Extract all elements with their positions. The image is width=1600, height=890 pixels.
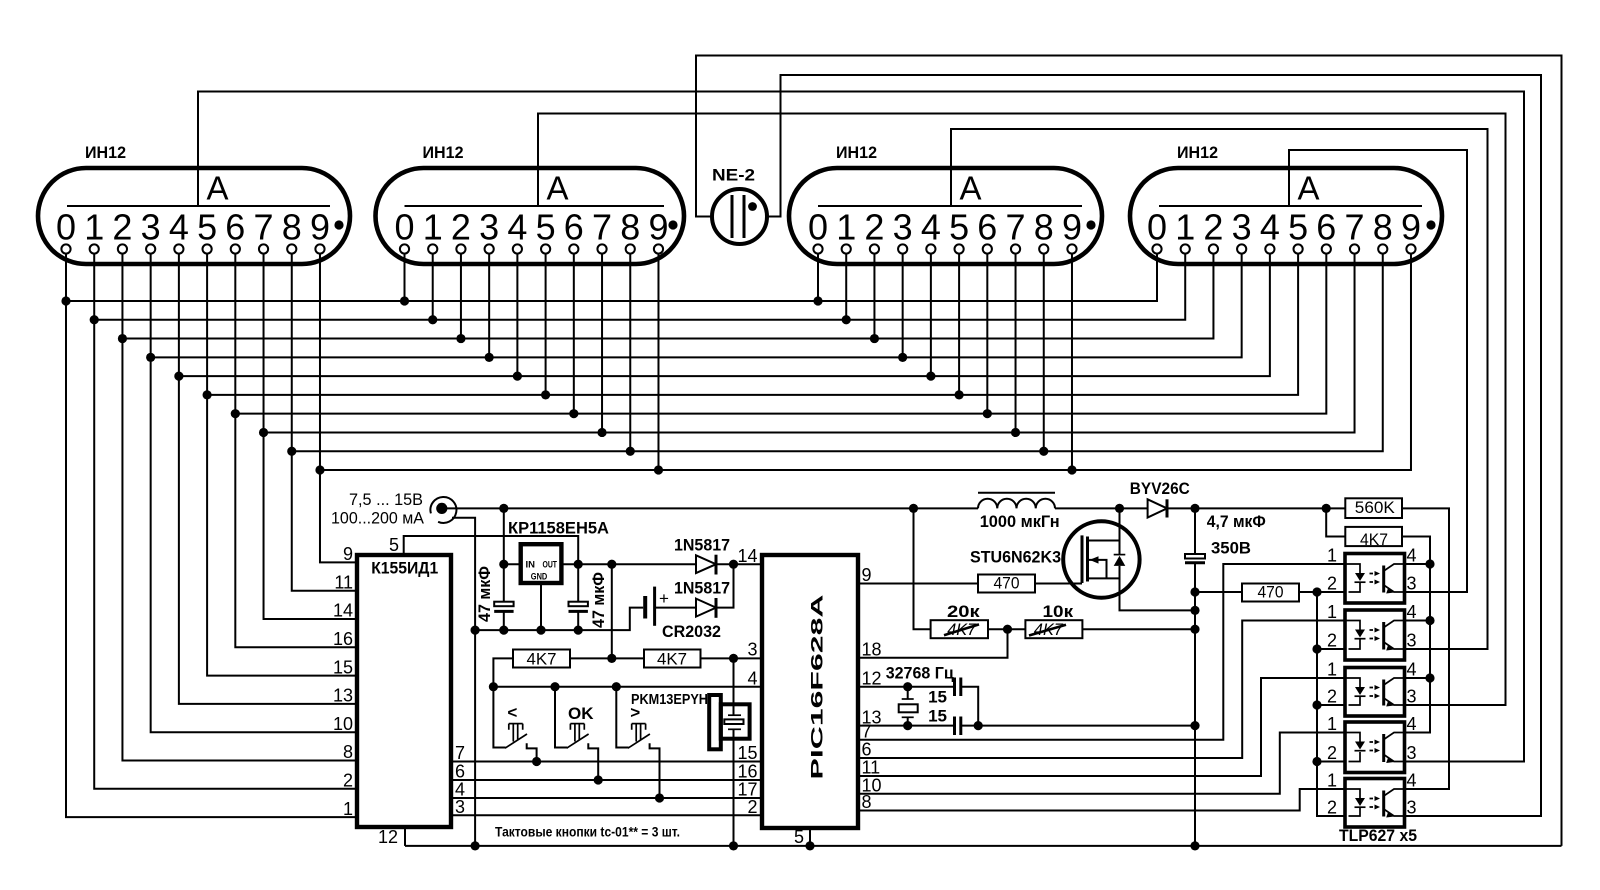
junction dots on +5V line (499, 560, 738, 569)
svg-text:0: 0 (56, 207, 76, 248)
wire: V3 cathode 7 drop to bus 7 (1015, 254, 1017, 433)
wire: cathode bus digit 5 (all tubes) (207, 254, 1298, 395)
wire: cathode bus digit 2 (all tubes) (122, 254, 1213, 339)
wire: anode of V2 to optocoupler U3 pin 3 (538, 114, 1506, 706)
wire: anode of V4 to optocoupler U1 pin 3 (1289, 150, 1467, 592)
svg-text:6: 6 (1316, 207, 1336, 248)
svg-text:4: 4 (1407, 660, 1417, 680)
wire: R2 right to R3 left (570, 657, 644, 659)
svg-text:BYV26C: BYV26C (1130, 479, 1190, 498)
capacitor C2 47мкФ (569, 564, 609, 630)
power input connector X1 (331, 490, 456, 528)
svg-text:6: 6 (862, 740, 872, 760)
capacitor C4 15pF (928, 678, 961, 707)
svg-text:ИН12: ИН12 (1177, 143, 1218, 162)
svg-text:Тактовые кнопки tc-01** = 3 шт: Тактовые кнопки tc-01** = 3 шт. (495, 825, 680, 840)
PIC right pin labels (862, 565, 882, 812)
svg-text:ИН12: ИН12 (836, 143, 877, 162)
resistor R8 560K (1345, 498, 1402, 518)
wire: opto pin2 rail (1317, 592, 1345, 816)
wire: 10k to HV rail (1082, 628, 1195, 630)
svg-text:IN: IN (526, 560, 536, 571)
wire: +U input power line (447, 507, 1345, 509)
wire: V1 cathode 8 to К155ИД1 pin 11 (292, 254, 357, 591)
resistor R4 470 (opto feed) (1242, 583, 1299, 602)
К155ИД1 left pin number labels (333, 544, 353, 819)
svg-text:3: 3 (1407, 631, 1417, 651)
svg-text:2: 2 (112, 207, 132, 248)
junction dots: V3 cathode drops on buses (813, 296, 1076, 474)
svg-text:8: 8 (862, 792, 872, 812)
battery G1 CR2032 (645, 587, 721, 641)
wire: cathode bus digit 8 (all tubes) (292, 254, 1383, 452)
svg-text:А: А (960, 170, 982, 207)
wire: anode of V1 to optocoupler U4 pin 3 (198, 92, 1524, 762)
svg-text:4: 4 (747, 668, 757, 688)
svg-text:100...200 мА: 100...200 мА (331, 509, 425, 528)
wires: opto pin4 stubs (1405, 564, 1431, 678)
resistor R6 20к (was 4K7) (931, 602, 988, 639)
wire: cathode bus digit 9 (all tubes) (320, 254, 1411, 471)
optocoupler U1 TLP627 (1327, 546, 1417, 603)
wire: К155ИД1 pin4 to PIC pin17 (451, 797, 762, 799)
svg-text:7: 7 (254, 207, 274, 248)
wire: V2 cathode 7 drop to bus 7 (601, 254, 603, 433)
svg-text:1000 мкГн: 1000 мкГн (980, 512, 1060, 531)
junction dots on opto pin2 rail (1312, 587, 1321, 766)
svg-text:14: 14 (333, 601, 353, 621)
svg-text:5: 5 (389, 535, 399, 555)
wire: PIC pin to optocoupler U2 pin 1 (858, 621, 1345, 759)
nixie tube V1 ИН12 (38, 143, 350, 264)
wire: V2 cathode 3 drop to bus 3 (488, 254, 490, 358)
svg-text:PKM13EPYH: PKM13EPYH (631, 691, 708, 708)
junction dot: button 2 output (594, 775, 603, 784)
resistor R7 10к (was 4K7) (1025, 602, 1082, 639)
wire: V2 cathode 4 drop to bus 4 (516, 254, 518, 377)
svg-text:7,5 ... 15В: 7,5 ... 15В (349, 490, 423, 509)
capacitor C3 4,7мкФ 350В (1185, 512, 1266, 563)
wire: V3 cathode 0 drop to bus 0 (817, 254, 819, 302)
wire: R8 to opto U5 pin4 (1402, 508, 1449, 789)
svg-text:4: 4 (1407, 714, 1417, 734)
wire: R3 right to PIC pin3 (701, 657, 763, 659)
optocoupler U4 TLP627 (1327, 714, 1417, 772)
svg-text:9: 9 (862, 565, 872, 585)
junction dots on power line (499, 504, 1331, 513)
svg-text:4: 4 (1407, 546, 1417, 566)
wire: 20k to 10k (988, 628, 1025, 630)
svg-text:4,7 мкФ: 4,7 мкФ (1207, 512, 1266, 531)
wire: V3 cathode 6 drop to bus 6 (986, 254, 988, 414)
wire: V2 cathode 5 drop to bus 5 (545, 254, 547, 395)
svg-text:К155ИД1: К155ИД1 (371, 558, 438, 577)
wire: V3 cathode 3 drop to bus 3 (902, 254, 904, 358)
svg-text:5: 5 (794, 827, 804, 847)
wire: power line drop to 20k (914, 508, 931, 629)
svg-text:2: 2 (343, 771, 353, 791)
nixie tube V3 ИН12 (789, 143, 1102, 264)
nixie tube V2 ИН12 (376, 143, 685, 264)
svg-text:10: 10 (333, 714, 353, 734)
wire: V3 cathode 4 drop to bus 4 (930, 254, 932, 377)
wire: V1 cathode 9 to К155ИД1 pin 9 (320, 254, 357, 563)
wire: gate resistor to MOSFET gate (1035, 583, 1082, 585)
svg-text:0: 0 (808, 207, 828, 248)
inductor L1 (978, 493, 1060, 531)
svg-text:STU6N62K3: STU6N62K3 (970, 548, 1061, 567)
svg-text:<: < (507, 703, 517, 722)
wire: HV rail to R4 to opto pin2 rail (1195, 591, 1345, 593)
wire: V3 cathode 9 drop to bus 9 (1071, 254, 1073, 471)
wire: V1 cathode 1 to К155ИД1 pin 2 (94, 254, 357, 789)
svg-text:2: 2 (864, 207, 884, 248)
wire: R2 left to button row (493, 658, 513, 686)
svg-text:1: 1 (423, 207, 443, 248)
К155ИД1 right pin labels 7 6 4 3 (455, 743, 465, 817)
wire: battery + to diode VD2 (655, 607, 696, 609)
svg-text:TLP627 x5: TLP627 x5 (1339, 826, 1417, 845)
svg-text:3: 3 (479, 207, 499, 248)
wire: PIC pin12 row (858, 687, 978, 726)
svg-text:6: 6 (225, 207, 245, 248)
svg-text:20к: 20к (947, 602, 980, 621)
wire: V3 cathode 1 drop to bus 1 (845, 254, 847, 320)
wire: R9 to opto pin4 rail (1402, 537, 1430, 733)
svg-text:32768 Гц: 32768 Гц (886, 664, 955, 683)
wire: button common row to PIC pin4 (493, 686, 762, 688)
svg-text:9: 9 (648, 207, 668, 248)
junction dots on bottom ground rail (471, 841, 1200, 850)
svg-text:47 мкФ: 47 мкФ (475, 566, 494, 622)
svg-text:8: 8 (282, 207, 302, 248)
svg-text:15: 15 (928, 707, 947, 726)
wire: V1 cathode 6 to К155ИД1 pin 16 (235, 254, 357, 648)
junction dots on button row (489, 682, 621, 691)
svg-text:47 мкФ: 47 мкФ (589, 572, 608, 628)
svg-text:13: 13 (333, 686, 353, 706)
svg-text:NE-2: NE-2 (712, 166, 755, 185)
wire: bottom ground rail (405, 845, 1562, 847)
wire: cathode bus digit 3 (all tubes) (151, 254, 1242, 358)
svg-text:А: А (1298, 170, 1320, 207)
junction dot divider (1003, 625, 1012, 634)
svg-text:18: 18 (862, 639, 882, 659)
diode VD2 1N5817 (battery backup) (674, 579, 730, 618)
svg-text:16: 16 (737, 762, 757, 782)
svg-text:1: 1 (1327, 714, 1337, 734)
capacitor C1 47мкФ (475, 564, 514, 630)
svg-text:15: 15 (333, 657, 353, 677)
junction dots on HV rail (1190, 587, 1199, 633)
wire: PIC pin to optocoupler U4 pin 1 (858, 733, 1345, 794)
svg-text:16: 16 (333, 629, 353, 649)
wire: local ground rail under regulator (475, 608, 643, 631)
svg-text:4: 4 (507, 207, 527, 248)
svg-text:1: 1 (1327, 771, 1337, 791)
svg-text:2: 2 (1327, 687, 1337, 707)
svg-text:3: 3 (455, 797, 465, 817)
junction dots on 4K7 row (607, 654, 738, 663)
wire: V1 cathode 5 to К155ИД1 pin 15 (207, 254, 357, 676)
svg-text:8: 8 (343, 742, 353, 762)
transistor VT1 STU6N62K3 MOSFET (970, 521, 1140, 597)
wire: PIC pin3 node down to buzzer and ground (733, 658, 735, 846)
svg-text:OUT: OUT (543, 560, 558, 571)
wire: V3 cathode 5 drop to bus 5 (958, 254, 960, 395)
svg-text:7: 7 (592, 207, 612, 248)
wire: V1 cathode 3 to К155ИД1 pin 10 (151, 254, 357, 733)
svg-text:0: 0 (1147, 207, 1167, 248)
wire: NE-2 left electrode to ground rail (top loop) (696, 56, 1562, 846)
svg-text:4K7: 4K7 (527, 650, 557, 669)
wire: cathode bus digit 7 (all tubes) (264, 254, 1355, 433)
resistor R3 4K7 (644, 650, 701, 669)
svg-text:6: 6 (455, 762, 465, 782)
svg-text:ИН12: ИН12 (423, 143, 464, 162)
svg-text:4: 4 (1407, 771, 1417, 791)
svg-text:2: 2 (451, 207, 471, 248)
wires: opto pin2 stubs (1317, 649, 1345, 762)
svg-text:15: 15 (928, 688, 947, 707)
wire: power to regulator IN (504, 508, 521, 564)
wire: cathode bus digit 4 (all tubes) (179, 254, 1270, 377)
IC DD1 К155ИД1 decoder (357, 555, 451, 827)
svg-text:OK: OK (568, 704, 594, 723)
junction dot: button 3 output (655, 793, 664, 802)
nixie tube V4 ИН12 (1130, 143, 1442, 264)
svg-text:11: 11 (334, 572, 353, 592)
wire: PIC pin13 row (858, 725, 1195, 727)
junction dots on opto pin4 rail (1425, 559, 1434, 682)
wire: V2 cathode 6 drop to bus 6 (573, 254, 575, 414)
svg-text:3: 3 (1407, 798, 1417, 818)
wire: К155ИД1 pin7 to PIC pin15 (451, 761, 762, 763)
svg-text:2: 2 (1327, 798, 1337, 818)
wire: V2 cathode 0 drop to bus 0 (404, 254, 406, 302)
wire: regulator GND to ground rail (540, 583, 542, 630)
wire: V2 cathode 8 drop to bus 8 (629, 254, 631, 452)
wire: +5V drop to R2/R3 junction (611, 564, 613, 658)
svg-text:3: 3 (747, 639, 757, 659)
IC DD2 PIC16F628A microcontroller (762, 555, 858, 828)
junction dots: V2 cathode drops on buses (400, 296, 663, 474)
wire: anode of V3 to optocoupler U2 pin 3 (951, 129, 1488, 649)
svg-text:+: + (659, 589, 669, 608)
crystal ZQ1 32768 Гц (886, 664, 955, 726)
wire: V1 cathode 2 to К155ИД1 pin 8 (122, 254, 357, 761)
svg-text:3: 3 (141, 207, 161, 248)
wire: cathode bus digit 1 (all tubes) (94, 254, 1185, 320)
wire: PIC pin9 to gate resistor (858, 583, 978, 585)
svg-text:470: 470 (994, 574, 1020, 593)
wire: MOSFET drain/source vertical (1120, 508, 1196, 610)
svg-text:5: 5 (949, 207, 969, 248)
junction dots crystal rows (903, 682, 1199, 730)
svg-text:9: 9 (1401, 207, 1421, 248)
wire: power dot to R9 (1326, 508, 1345, 536)
svg-text:4: 4 (169, 207, 189, 248)
svg-text:9: 9 (343, 544, 353, 564)
svg-text:6: 6 (977, 207, 997, 248)
svg-text:8: 8 (1034, 207, 1054, 248)
capacitor C5 15pF (928, 707, 961, 736)
svg-text:5: 5 (197, 207, 217, 248)
svg-text:1: 1 (1327, 546, 1337, 566)
svg-text:7: 7 (862, 722, 872, 742)
resistor R9 4K7 (1345, 527, 1402, 549)
svg-text:8: 8 (620, 207, 640, 248)
voltage regulator DA1 КР1158ЕН5А (508, 519, 609, 584)
wire: PIC pin18 to divider junction (858, 629, 1008, 658)
svg-text:3: 3 (1407, 743, 1417, 763)
wire: V1 cathode 4 to К155ИД1 pin 13 (179, 254, 357, 704)
svg-text:12: 12 (862, 668, 882, 688)
svg-text:1: 1 (1175, 207, 1195, 248)
wire: V2 cathode 2 drop to bus 2 (460, 254, 462, 339)
diode VD1 1N5817 (main supply) (674, 535, 730, 574)
svg-text:5: 5 (536, 207, 556, 248)
wire: PIC pin 5 to ground rail (809, 828, 811, 846)
svg-text:А: А (207, 170, 229, 207)
resistor R5 470 (gate) (978, 574, 1035, 593)
svg-text:3: 3 (1407, 687, 1417, 707)
svg-text:9: 9 (310, 207, 330, 248)
svg-text:6: 6 (564, 207, 584, 248)
svg-text:1N5817: 1N5817 (674, 535, 730, 554)
neon lamp NE-2 (712, 166, 767, 244)
wire: PIC pin to optocoupler U3 pin 1 (858, 678, 1345, 776)
PIC left pin labels (737, 546, 757, 817)
wire: PIC pin to optocoupler U5 pin 1 (858, 789, 1345, 811)
wire: NE-2 right electrode to optocoupler U5 pin 3 (767, 75, 1541, 816)
svg-text:7: 7 (455, 743, 465, 763)
svg-text:1: 1 (1327, 660, 1337, 680)
diode VD3 BYV26C (1130, 479, 1190, 518)
wire: cathode bus digit 0 (all tubes) (66, 254, 1157, 302)
svg-text:470: 470 (1258, 583, 1284, 602)
svg-text:2: 2 (1327, 743, 1337, 763)
svg-text:560K: 560K (1355, 498, 1396, 517)
svg-text:10к: 10к (1043, 602, 1074, 621)
svg-text:3: 3 (893, 207, 913, 248)
buzzer BQ1 PKM13EPYH (631, 691, 750, 749)
resistor R2 4K7 (513, 650, 570, 669)
svg-text:2: 2 (747, 797, 757, 817)
svg-text:4K7: 4K7 (657, 650, 687, 669)
wire: К155ИД1 pin3 to PIC pin2 (451, 814, 762, 816)
wire: V3 cathode 8 drop to bus 8 (1043, 254, 1045, 452)
svg-text:3: 3 (1232, 207, 1252, 248)
svg-text:0: 0 (394, 207, 414, 248)
junction dots: V1 cathode drops on buses (61, 296, 324, 474)
junction dot: button 1 output (532, 757, 541, 766)
pushbutton SB3 ">" (616, 687, 659, 798)
svg-text:2: 2 (1327, 631, 1337, 651)
junction dots on local ground rail (471, 626, 583, 635)
wire: connector negative to ground rails (452, 518, 475, 846)
wire: V1 cathode 0 to К155ИД1 pin 1 (66, 254, 357, 818)
svg-text:4: 4 (1260, 207, 1280, 248)
svg-text:А: А (547, 170, 569, 207)
wire: diode VD2 cathode up to +5V node (716, 564, 734, 607)
svg-text:КР1158ЕН5А: КР1158ЕН5А (508, 519, 609, 538)
svg-text:350В: 350В (1211, 539, 1251, 558)
svg-text:1: 1 (84, 207, 104, 248)
svg-text:8: 8 (1373, 207, 1393, 248)
optocoupler U5 TLP627 (1327, 771, 1417, 827)
svg-text:2: 2 (1327, 574, 1337, 594)
svg-text:7: 7 (1006, 207, 1026, 248)
wire: PIC pin to optocoupler U1 pin 1 (858, 564, 1345, 740)
svg-text:1: 1 (343, 799, 353, 819)
pushbutton SB2 "OK" (555, 687, 598, 780)
svg-text:1N5817: 1N5817 (674, 579, 730, 598)
svg-text:4K7: 4K7 (1360, 530, 1388, 549)
wire: V3 cathode 2 drop to bus 2 (873, 254, 875, 339)
svg-text:3: 3 (1407, 574, 1417, 594)
svg-text:1: 1 (836, 207, 856, 248)
wire: V1 cathode 7 to К155ИД1 pin 14 (264, 254, 357, 620)
svg-text:4: 4 (1407, 602, 1417, 622)
wire: V2 cathode 9 drop to bus 9 (657, 254, 659, 471)
optocoupler U2 TLP627 (1327, 602, 1417, 660)
svg-text:14: 14 (737, 546, 757, 566)
wire: HV rail (cap/feedback/LED supply) (1194, 508, 1196, 846)
svg-text:2: 2 (1203, 207, 1223, 248)
svg-text:GND: GND (531, 572, 548, 583)
svg-text:9: 9 (1062, 207, 1082, 248)
wire: К155ИД1 pin 5 to +5V (404, 536, 579, 564)
svg-text:1: 1 (1327, 602, 1337, 622)
wire: V2 cathode 1 drop to bus 1 (432, 254, 434, 320)
svg-text:5: 5 (1288, 207, 1308, 248)
svg-text:CR2032: CR2032 (662, 622, 721, 641)
optocoupler U3 TLP627 (1327, 660, 1417, 716)
svg-text:PIC16F628A: PIC16F628A (808, 595, 827, 780)
svg-text:4: 4 (921, 207, 941, 248)
svg-text:15: 15 (737, 743, 757, 763)
wire: К155ИД1 pin6 to PIC pin16 (451, 779, 762, 781)
wire: К155ИД1 pin 12 to ground rail (404, 827, 406, 846)
pushbutton SB1 "<" (493, 687, 536, 762)
wire: +5V output line (561, 563, 762, 565)
wire: cathode bus digit 6 (all tubes) (235, 254, 1326, 414)
svg-text:12: 12 (378, 827, 398, 847)
svg-text:7: 7 (1345, 207, 1365, 248)
svg-text:ИН12: ИН12 (85, 143, 126, 162)
